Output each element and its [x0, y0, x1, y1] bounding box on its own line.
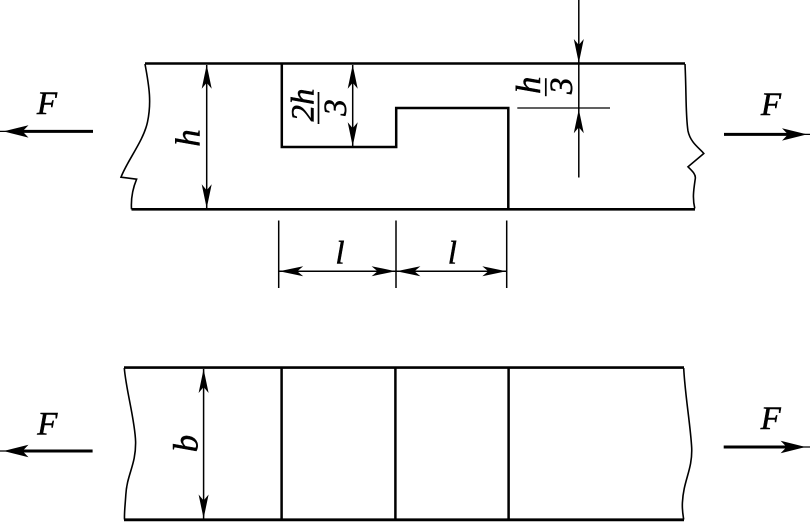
svg-text:h: h	[169, 129, 208, 147]
svg-text:b: b	[167, 435, 206, 453]
svg-text:F: F	[36, 86, 58, 122]
svg-text:F: F	[760, 401, 782, 437]
svg-text:F: F	[36, 407, 58, 443]
svg-text:2h: 2h	[286, 89, 322, 122]
svg-text:3: 3	[544, 78, 580, 96]
svg-text:F: F	[760, 87, 782, 123]
svg-text:l: l	[335, 236, 344, 272]
svg-text:l: l	[448, 236, 457, 272]
svg-text:3: 3	[318, 99, 354, 117]
svg-text:h: h	[509, 76, 548, 94]
